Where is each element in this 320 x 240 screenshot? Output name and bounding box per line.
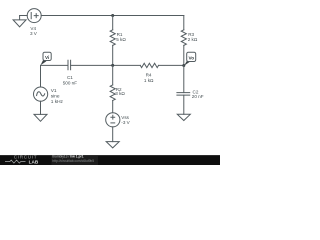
svg-text:2 kΩ: 2 kΩ [188, 37, 198, 42]
resistor R2 [110, 85, 115, 101]
wire R2 to Vss [112, 101, 114, 113]
wire C2 to ground [183, 95, 185, 114]
resistor R1 [110, 30, 115, 46]
voltage source Vss [106, 113, 120, 127]
wire R4 to Vo junction [159, 64, 184, 66]
svg-text:V1: V1 [51, 88, 57, 94]
ground GND3 (bottom-right) [177, 114, 190, 120]
wire top rail [41, 15, 184, 17]
svg-text:20 nF: 20 nF [192, 94, 204, 99]
svg-text:1 kΩ: 1 kΩ [144, 78, 154, 83]
wire mid rail left (Vi corner to C1) [41, 64, 69, 66]
voltage source V4 [27, 9, 41, 23]
node Vo junction [182, 64, 185, 67]
svg-text:http://circuitlab.com/c6kd9b5: http://circuitlab.com/c6kd9b5 [52, 159, 94, 163]
wire R2 top lead [112, 65, 114, 85]
svg-text:1 kHz: 1 kHz [51, 99, 64, 105]
wire Vi corner down to V1 [40, 65, 42, 87]
voltage source V1 (sine) [34, 87, 48, 101]
resistor R3 [181, 30, 186, 46]
label V1 sine 1kHz [51, 88, 64, 105]
svg-text:Vo: Vo [188, 55, 194, 60]
svg-text:3 kΩ: 3 kΩ [115, 91, 125, 96]
wire R1 bottom lead [112, 45, 114, 65]
node flag Vi [41, 52, 52, 65]
CircuitLab logo [5, 155, 39, 165]
svg-text:5 kΩ: 5 kΩ [116, 37, 126, 42]
wire Vss to ground [112, 127, 114, 142]
wire Vo junction down to C2 [183, 66, 185, 93]
ground GND2 (bottom-middle) [106, 142, 119, 148]
node flag Vo [184, 52, 196, 65]
svg-text:Vi: Vi [45, 55, 49, 60]
label R3 2 kOhm [188, 32, 198, 42]
wire R3 bottom lead [183, 45, 185, 65]
capacitor C2 [177, 93, 190, 96]
svg-text:3 V: 3 V [30, 31, 38, 36]
svg-text:C1: C1 [67, 75, 73, 80]
resistor R4 [140, 63, 158, 67]
node top junction [111, 14, 114, 17]
wire right column top [183, 16, 185, 30]
svg-text:thombly13 / hw 1.pr1: thombly13 / hw 1.pr1 [52, 154, 84, 158]
label R4 1 kOhm [144, 73, 154, 83]
capacitor C1 [68, 60, 71, 70]
svg-text:500 nF: 500 nF [63, 80, 77, 85]
label Vss -3V [121, 115, 130, 125]
wire R1 top lead [112, 16, 114, 30]
label R1 5 kOhm [116, 32, 126, 42]
label R2 3 kOhm [115, 87, 125, 96]
svg-text:sine: sine [51, 94, 60, 100]
ground GND4 (top-left) [13, 16, 26, 27]
wire V1 to ground [40, 101, 42, 114]
svg-text:LAB: LAB [29, 159, 39, 164]
label C1 500 nF [63, 75, 77, 85]
label C2 20 nF [192, 90, 204, 100]
label V4 3V [30, 26, 38, 36]
node mid junction [111, 64, 114, 67]
ground GND1 (bottom-left) [34, 114, 47, 121]
svg-text:-3 V: -3 V [121, 120, 130, 125]
wire ground to V4 [20, 15, 28, 17]
wire mid rail C1 to R4 [71, 64, 141, 66]
watermark bar [0, 154, 220, 165]
